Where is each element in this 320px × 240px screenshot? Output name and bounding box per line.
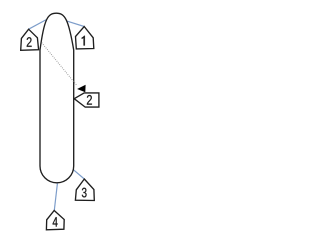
pennant label 2 (right) [74,93,99,107]
label 2 [27,37,32,47]
capsule body (test tube outline) [40,13,74,183]
balloon 1 (top-right pentagon) [76,27,94,49]
wire leader to balloon 2 (blue) [29,20,47,30]
label 2 (pennant) [87,95,92,105]
wire leader to balloon 3 (blue) [73,169,85,179]
dotted leader line [42,43,77,86]
balloon 3 (bottom-right pentagon) [75,179,94,201]
balloon 2 (top-left pentagon) [21,29,39,50]
label 4 [53,217,58,226]
balloon 4 (bottom pentagon) [46,211,64,230]
label 3 [82,188,87,198]
wire leader to balloon 4 (blue) [54,184,57,211]
label 1 [82,36,85,46]
wire leader to balloon 1 (blue) [67,21,84,26]
arrowhead [77,85,86,92]
